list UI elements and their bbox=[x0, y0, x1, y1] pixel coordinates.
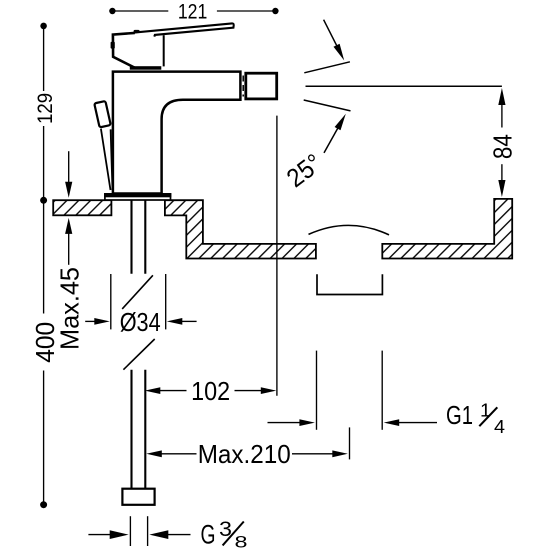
svg-text:Max.210: Max.210 bbox=[198, 439, 291, 469]
dim 84 bbox=[498, 88, 505, 105]
handle lever bbox=[134, 23, 234, 36]
svg-text:121: 121 bbox=[178, 1, 208, 24]
countertop step-down section (hatched Z profile) bbox=[165, 200, 316, 258]
mounting nut bbox=[122, 489, 154, 505]
svg-text:4: 4 bbox=[494, 417, 505, 437]
supply pipes bbox=[130, 200, 132, 274]
handle top nub bbox=[134, 30, 140, 33]
dim Max.45 bbox=[68, 151, 70, 183]
svg-text:G1: G1 bbox=[446, 400, 473, 430]
svg-text:G: G bbox=[201, 520, 216, 548]
dim 121 bbox=[112, 10, 168, 12]
handle base outline strokes bbox=[113, 33, 135, 68]
dim Max.210 bbox=[146, 450, 162, 457]
spout level line bbox=[306, 85, 502, 87]
dim G 3/8 bbox=[129, 516, 131, 546]
25 deg leaders bbox=[324, 20, 338, 49]
handle base silhouette (white fill) bbox=[113, 23, 234, 67]
svg-text:129: 129 bbox=[34, 93, 57, 124]
svg-text:1: 1 bbox=[480, 401, 491, 421]
pop-up rod bbox=[101, 129, 111, 190]
handle left nub bbox=[111, 42, 115, 49]
dim 400 bbox=[43, 200, 45, 313]
dim 102 bbox=[276, 116, 278, 396]
svg-text:8: 8 bbox=[235, 532, 248, 548]
svg-text:84: 84 bbox=[488, 134, 518, 159]
dim 129 bbox=[43, 26, 45, 91]
cartridge black bar bbox=[130, 66, 162, 70]
countertop left slab (hatched) bbox=[53, 200, 111, 215]
svg-text:102: 102 bbox=[191, 376, 230, 406]
svg-text:25°: 25° bbox=[281, 148, 328, 194]
spout connector groove bbox=[242, 76, 244, 97]
svg-text:Ø34: Ø34 bbox=[120, 307, 161, 337]
svg-text:Max.45: Max.45 bbox=[54, 267, 84, 350]
spout tip block bbox=[246, 73, 277, 99]
faucet body outline bbox=[113, 72, 240, 194]
countertop right section with raised wall (hatched) bbox=[382, 199, 512, 259]
pipe break marks bbox=[122, 275, 153, 309]
dim G1 1/4 bbox=[316, 351, 318, 430]
basin bottom arc bbox=[309, 225, 390, 235]
drain outline U bbox=[317, 274, 382, 294]
dim diameter 34 bbox=[110, 274, 112, 329]
25 deg rays bbox=[304, 62, 350, 73]
base plate bbox=[105, 194, 171, 200]
pop-up knob bbox=[94, 101, 110, 127]
